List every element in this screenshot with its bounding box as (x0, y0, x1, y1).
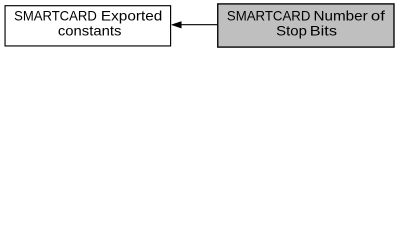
arrowhead (172, 22, 182, 29)
svg-text:SMARTCARD: SMARTCARD (14, 7, 97, 23)
wire: dependency edge (172, 22, 218, 29)
svg-text:SMARTCARD: SMARTCARD (227, 8, 311, 24)
background (0, 0, 400, 51)
node: SMARTCARD Number of Stop Bits (current, grey) (218, 4, 394, 47)
svg-text:of: of (371, 8, 385, 24)
node: SMARTCARD Exported constants (5, 6, 171, 46)
svg-text:constants: constants (58, 22, 122, 38)
svg-text:Bits: Bits (310, 23, 337, 39)
svg-text:Stop: Stop (276, 23, 307, 39)
svg-text:Exported: Exported (101, 7, 162, 23)
svg-text:Number: Number (314, 8, 369, 24)
